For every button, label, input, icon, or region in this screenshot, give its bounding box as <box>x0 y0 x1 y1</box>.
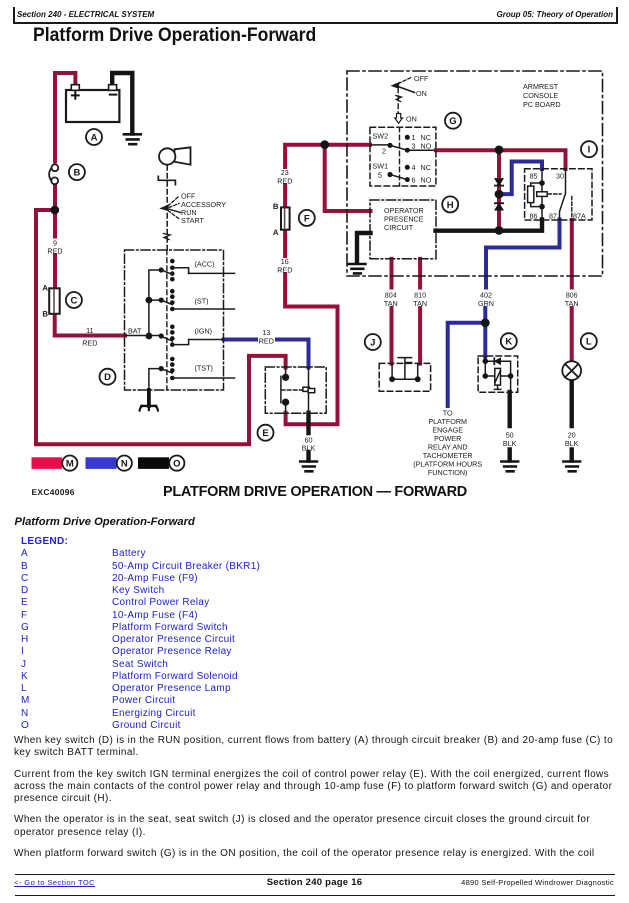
wire: (ACC) output <box>189 272 235 274</box>
key switch IGN contacts <box>159 325 189 347</box>
key switch internal bus <box>125 270 161 336</box>
linkage: key to key switch (dashed) <box>166 166 168 251</box>
svg-text:M: M <box>66 459 74 470</box>
schematic SVG <box>0 0 629 510</box>
operator presence circuit H box <box>370 200 436 259</box>
svg-text:ARMREST: ARMREST <box>523 82 559 91</box>
label H <box>442 196 458 212</box>
svg-text:2: 2 <box>382 147 386 156</box>
svg-text:BLK: BLK <box>565 439 579 448</box>
wire: 16 RED fuse F to control power relay contact <box>285 230 337 424</box>
svg-text:TAN: TAN <box>413 299 427 308</box>
junction node 402 GRN branch <box>481 318 490 327</box>
svg-text:C: C <box>70 295 77 306</box>
wire: 60 BLK relay E coil to ground <box>306 413 310 461</box>
label M <box>62 456 77 471</box>
svg-text:G: G <box>449 116 456 127</box>
relay I coil <box>528 169 545 220</box>
label: OPERATOR PRESENCE CIRCUIT <box>384 206 424 232</box>
wire: 806 TAN relay 87A to lamp L <box>570 220 574 362</box>
label: 20 BLK <box>565 431 579 449</box>
wire: 20 BLK lamp to ground <box>570 381 574 461</box>
ground: lamp L <box>563 462 580 472</box>
key switch bus node ST <box>146 297 153 304</box>
svg-text:A: A <box>273 228 279 237</box>
svg-text:(IGN): (IGN) <box>195 327 213 336</box>
platform forward switch G box <box>370 127 436 186</box>
label: 810 TAN <box>413 291 427 309</box>
wire: diode branch crimson segments <box>497 150 501 230</box>
operator presence relay I box <box>525 169 592 220</box>
solenoid K circuit <box>483 357 514 393</box>
svg-text:ON: ON <box>416 89 427 98</box>
page title <box>33 25 316 47</box>
key position fan arrow <box>161 197 181 219</box>
svg-text:EXC40096: EXC40096 <box>32 487 75 497</box>
relay E coil <box>303 367 315 413</box>
svg-text:86: 86 <box>530 211 538 220</box>
footer bottom rule <box>15 895 615 896</box>
battery A <box>66 85 119 122</box>
label: 804 TAN <box>384 291 398 309</box>
label: 60 BLK <box>302 436 316 453</box>
wire: battery negative to ground (black) <box>112 73 132 134</box>
wire: relay I terminal 87 to 402 GRN (blue) <box>485 220 559 357</box>
svg-text:ON: ON <box>406 115 417 124</box>
solenoid K coil <box>494 368 500 389</box>
wire: 11 RED fuse C to key switch BAT <box>55 314 125 336</box>
platform drive toggle switch <box>392 78 415 93</box>
label: 402 GRN <box>478 291 494 309</box>
key switch D box <box>125 250 224 390</box>
svg-text:RED: RED <box>277 177 292 186</box>
svg-text:3: 3 <box>412 142 416 151</box>
label N <box>117 456 132 471</box>
junction node SW2-3 / diode branch <box>495 146 504 155</box>
svg-text:SW1: SW1 <box>373 162 389 171</box>
svg-text:TAN: TAN <box>565 299 579 308</box>
seat switch contacts <box>389 358 420 383</box>
relay I switch blade 30-87 <box>560 169 566 220</box>
key switch TST contacts <box>159 357 175 381</box>
footer rule <box>15 874 615 875</box>
key switch ACC contacts <box>159 259 189 282</box>
footer right <box>461 878 614 887</box>
label: TO PLATFORM ENGAGE POWER RELAY AND TACHOMETER <box>413 409 482 478</box>
svg-text:NO: NO <box>421 176 432 185</box>
label: 13 RED <box>259 328 274 346</box>
figure caption <box>163 484 467 500</box>
key switch BAT node <box>146 333 153 340</box>
labels: key positions <box>181 192 226 226</box>
ground: relay E coil <box>300 462 317 472</box>
label B <box>69 164 85 180</box>
labels: relay I pins <box>530 171 586 220</box>
section heading italic <box>15 516 195 528</box>
label: 9 RED <box>47 239 62 256</box>
linkage zigzag break (toggle) <box>396 96 402 102</box>
label: 23 RED <box>277 168 292 186</box>
svg-text:D: D <box>104 372 111 383</box>
svg-text:B: B <box>73 168 80 179</box>
wire: diode tap to relay I terminal 85 (blue) <box>499 162 542 195</box>
label: ARMREST CONSOLE PC BOARD <box>523 82 561 109</box>
switch G linkage line <box>399 127 401 186</box>
label G <box>445 113 461 129</box>
fuse C (20-Amp F9) <box>42 284 59 319</box>
wire: battery positive to circuit breaker (crimson) <box>55 73 75 162</box>
linkage: toggle to switch G (dashed) <box>397 88 399 113</box>
label A <box>86 129 102 145</box>
wire: 402 GRN branch to platform engage relay (blue) <box>448 323 486 406</box>
svg-text:RED: RED <box>259 337 274 346</box>
svg-text:A: A <box>91 132 98 143</box>
label: 50 BLK <box>503 431 517 449</box>
ground: battery negative <box>124 134 141 144</box>
svg-text:30: 30 <box>556 171 564 180</box>
wire: circuit breaker to junction node <box>53 184 57 210</box>
armrest console PC board box <box>347 71 603 276</box>
legend swatch N energizing circuit <box>86 457 117 469</box>
svg-text:E: E <box>262 428 268 439</box>
svg-text:87A: 87A <box>573 211 586 220</box>
svg-text:5: 5 <box>378 171 382 180</box>
labels: toggle OFF / ON <box>414 74 429 98</box>
solenoid K suppression diode <box>494 358 500 364</box>
control power relay E box <box>265 367 326 413</box>
svg-text:4: 4 <box>412 163 416 172</box>
wire: SW2 terminal 3 to relay I terminal 30 <box>436 150 566 169</box>
svg-text:87: 87 <box>549 211 557 220</box>
wire: left bypass power feed to control power relay contact <box>36 210 286 444</box>
svg-text:85: 85 <box>530 171 538 180</box>
actuation arrow ON <box>395 114 403 124</box>
header right <box>497 10 613 19</box>
fuse F (10-Amp F4) <box>273 202 290 237</box>
switch SW2 contacts <box>387 135 409 153</box>
junction node between diodes / 85 tap <box>495 190 504 199</box>
svg-text:B: B <box>42 310 48 319</box>
svg-text:BAT: BAT <box>128 327 142 336</box>
svg-text:F: F <box>304 213 310 224</box>
wire: TST pivot to ground <box>149 369 161 390</box>
svg-text:(ACC): (ACC) <box>195 260 215 269</box>
label L <box>581 333 597 349</box>
body paragraphs <box>14 735 626 860</box>
footer left link <box>14 878 95 887</box>
junction node top feed / H branch <box>320 140 329 149</box>
svg-text:J: J <box>370 337 375 348</box>
wire: 13 RED key switch IGN to control power relay coil (blue) <box>224 340 309 368</box>
svg-text:K: K <box>505 337 512 348</box>
label J <box>365 334 381 350</box>
relay I armature <box>537 192 561 197</box>
label D <box>100 369 116 385</box>
circuit breaker B <box>49 164 58 184</box>
legend swatch O ground circuit <box>138 457 169 469</box>
svg-text:OFF: OFF <box>414 74 429 83</box>
diode D2 (cathode top) <box>495 203 503 210</box>
label: 16 RED <box>277 257 292 275</box>
svg-text:CONSOLE: CONSOLE <box>523 91 558 100</box>
key switch ST contacts <box>159 289 175 311</box>
svg-text:BLK: BLK <box>302 444 316 453</box>
svg-text:6: 6 <box>412 176 416 185</box>
wire: relay I terminal 86 to operator presence circuit <box>436 220 543 231</box>
wire: 9 RED junction to fuse C <box>53 210 57 289</box>
legend swatch M power circuit <box>32 457 62 469</box>
wire: 810 TAN operator presence to seat switch <box>418 259 422 364</box>
relay E contact <box>281 367 303 413</box>
svg-text:CIRCUIT: CIRCUIT <box>384 223 414 232</box>
ground: solenoid K <box>501 462 518 472</box>
header left <box>17 10 154 19</box>
svg-text:NC: NC <box>421 163 431 172</box>
svg-text:NO: NO <box>421 142 432 151</box>
key switch linkage line inside D <box>166 250 168 390</box>
svg-text:FUNCTION): FUNCTION) <box>428 468 468 477</box>
junction node diode branch / 86 black wire <box>495 226 504 235</box>
label I <box>581 141 597 157</box>
wire: SW2 terminal 3 lead <box>407 149 436 151</box>
svg-text:(ST): (ST) <box>195 297 209 306</box>
wire: branch to operator presence circuit H <box>325 145 371 211</box>
platform forward solenoid K box <box>478 356 518 392</box>
linkage zigzag break <box>164 234 171 240</box>
svg-text:BLK: BLK <box>503 439 517 448</box>
legend block <box>21 536 68 732</box>
labels: SW2 pins <box>382 133 432 156</box>
svg-text:N: N <box>121 459 128 470</box>
svg-text:SW2: SW2 <box>373 132 389 141</box>
wire: 23 RED top feed to fuse F and switch SW2 <box>285 145 370 207</box>
ground: key switch fork <box>140 390 158 411</box>
header rule <box>13 22 617 24</box>
wire: 804 TAN operator presence to seat switch <box>390 259 394 364</box>
footer center <box>0 877 629 888</box>
wire: (ST) output <box>172 308 234 310</box>
svg-text:O: O <box>173 459 180 470</box>
svg-text:PC BOARD: PC BOARD <box>523 100 561 109</box>
svg-text:(TST): (TST) <box>195 364 213 373</box>
header left tick <box>13 7 15 24</box>
svg-text:START: START <box>181 216 205 225</box>
wire: operator presence circuit ground <box>357 233 371 263</box>
wire: 50 BLK solenoid to ground <box>508 392 512 461</box>
svg-text:RED: RED <box>82 339 97 348</box>
key symbol <box>159 147 191 164</box>
seat switch J box <box>379 363 430 391</box>
wire: SW2 terminal 2 lead <box>370 144 390 146</box>
switch SW1 contacts <box>387 165 409 182</box>
labels: SW1 pins <box>378 163 432 185</box>
label C <box>66 292 82 308</box>
wire: (IGN) output <box>189 339 224 341</box>
label: 806 TAN <box>565 291 579 309</box>
linkage offset bracket <box>158 176 175 184</box>
svg-text:I: I <box>588 145 591 156</box>
svg-text:11: 11 <box>86 326 93 335</box>
svg-text:GRN: GRN <box>478 299 494 308</box>
junction node at circuit breaker output <box>50 206 59 215</box>
diode D1 (anode top) <box>495 179 503 186</box>
svg-text:H: H <box>447 200 454 211</box>
label K <box>501 333 517 349</box>
header right tick <box>616 7 618 24</box>
svg-text:B: B <box>273 202 279 211</box>
ground: operator presence circuit <box>349 264 366 273</box>
label E <box>258 425 274 441</box>
relay I 87A throw <box>571 197 573 220</box>
label F <box>299 210 315 226</box>
operator presence lamp L <box>562 361 581 380</box>
label: 11 RED <box>82 326 97 348</box>
label O <box>169 456 184 471</box>
svg-text:L: L <box>586 337 592 348</box>
svg-text:RED: RED <box>47 247 62 256</box>
svg-text:A: A <box>42 284 48 293</box>
wire: (TST) output <box>172 377 234 379</box>
svg-text:TAN: TAN <box>384 299 398 308</box>
svg-text:RED: RED <box>277 266 292 275</box>
